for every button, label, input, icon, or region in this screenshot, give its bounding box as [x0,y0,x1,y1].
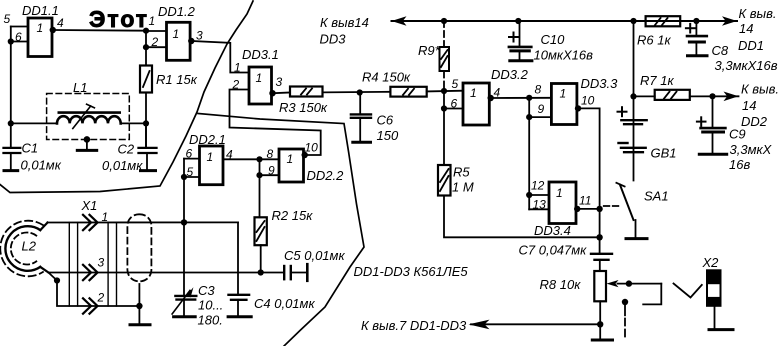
svg-text:1: 1 [234,61,241,75]
wire output to pin7 [471,323,600,325]
pin contact X1.3 [83,265,98,280]
svg-text:14: 14 [742,98,756,113]
resistor R4 [362,70,427,97]
logic gate DD3.2 [463,67,529,125]
wire DD3.3/DD3.4 input column [528,98,530,210]
svg-text:1: 1 [149,14,156,28]
wire DD3.2 pin6 [444,108,463,110]
wire DD1.2 input column to R1 [145,31,147,66]
svg-text:DD1.1: DD1.1 [22,3,59,18]
svg-text:C6: C6 [377,113,394,128]
capacitor C7 [519,243,613,272]
svg-text:R2 15к: R2 15к [272,208,314,223]
resistor R2 [255,208,314,245]
wire C4 bottom [237,300,239,316]
svg-text:3,3мкX16в: 3,3мкX16в [715,58,778,73]
wire R1 bottom to tank [145,93,147,148]
svg-text:GB1: GB1 [651,146,677,161]
wire DD3.4 pin13 [529,208,549,210]
inductor L2 (search coil) [0,221,48,277]
svg-text:R3 150к: R3 150к [279,100,328,115]
wire C1 bottom [10,153,12,170]
node C rail/GB1 [630,18,636,24]
wire DD3.1 out to R3 [274,92,290,95]
inductor L1 (with shield box) [47,80,130,140]
node inversion dot DD2.2 output [302,152,308,158]
net label K vyv14 DD3 [320,15,369,47]
node junction feedback/C7 [596,234,602,240]
wire DD2.2 input column to R2 [259,159,261,217]
svg-text:К выв.: К выв. [739,6,777,21]
node D rail/C8 [693,18,699,24]
node inversion dot DD1.2 output [188,38,194,44]
svg-text:L2: L2 [22,239,37,254]
svg-text:C8: C8 [712,43,729,58]
node inversion dot DD3.4 output [574,206,580,212]
ground C6 [353,141,371,144]
resistor R6 [637,16,680,47]
svg-text:8: 8 [535,83,542,97]
ground C10 [510,59,532,62]
wire R3 to C6 node [323,91,391,94]
capacitor C1 [4,141,62,173]
svg-text:11: 11 [579,194,591,208]
node junction DD1.1 inputs [8,38,14,44]
capacitor C5 [284,248,345,281]
svg-text:3: 3 [276,75,283,89]
svg-text:0,01мк: 0,01мк [102,158,143,173]
svg-text:C7 0,047мк: C7 0,047мк [519,243,588,258]
svg-text:1: 1 [207,150,214,164]
svg-text:C4 0,01мк: C4 0,01мк [254,296,315,311]
ground C3 [174,315,196,318]
node junction DD1.2 pin2 [143,44,149,50]
ground C9 [699,153,726,156]
ground C4 [228,315,251,318]
net label K vyv 14 DD1 [738,6,777,53]
node junction tank node at pin1 wire [181,219,187,225]
svg-text:2: 2 [97,291,105,305]
capacitor C9 [697,96,773,172]
svg-text:C10: C10 [541,32,566,47]
tear line A (torn fragment right edge) [0,1,253,193]
wire DD1.2 pin3 to DD3.1 pin1 [193,41,250,73]
svg-text:4: 4 [57,16,64,30]
wire jack contact dashes [624,319,626,337]
logic gate DD1.1 [22,3,59,57]
svg-text:16в: 16в [729,157,750,172]
wire C2 bottom [146,153,148,170]
resistor R3 [279,87,328,116]
svg-text:C3: C3 [198,283,215,298]
node junction R8/output wire [597,321,603,327]
node junction R7/C9 [709,93,715,99]
wire V+ rail [392,20,738,22]
logic gate DD1.2 [158,4,196,60]
node junction DD2.1 pin5 [181,174,187,180]
node inversion dot DD1.1 output [50,27,56,33]
wire pin5 DD1.1 [11,26,28,28]
wire DD2.1 input column down to C3 [183,159,185,296]
wire R8 bottom [599,301,601,339]
capacitor C8 [686,21,778,73]
arrow to pin7 DD1-DD3 [469,320,490,330]
pin contact X1.1 [83,215,98,230]
ground C1 [4,169,18,172]
arrow to pin14 DD1 (right) [722,16,737,26]
svg-text:5: 5 [452,77,459,91]
svg-text:X2: X2 [702,255,720,270]
node junction DD3.3 pin8 [526,95,532,101]
node junction L2 cold [54,277,60,283]
svg-text:R1 15к: R1 15к [156,72,198,87]
node junction R4/R9/R5 [441,88,447,94]
svg-text:DD2.2: DD2.2 [307,168,345,183]
connector X2 (phone jack) [643,255,720,306]
ground X2 [709,306,733,330]
wire DD3.3 out down to DD3.4 out [580,108,600,253]
svg-text:10: 10 [581,94,595,108]
svg-text:10мкX16в: 10мкX16в [534,48,594,63]
net label K vyv 14 DD2 [741,82,779,130]
svg-text:C9: C9 [729,127,746,142]
svg-text:R9*: R9* [418,43,441,58]
node junction R2/C5 [258,269,264,275]
logic gate DD2.1 [189,132,226,185]
svg-text:DD3.4: DD3.4 [534,223,571,238]
node junction outputs 10/11 [596,206,602,212]
svg-text:R7 1к: R7 1к [640,73,674,88]
node junction DD3.4 pin12 [526,192,532,198]
svg-text:3,3мкX: 3,3мкX [730,142,773,157]
svg-text:1: 1 [256,71,263,85]
svg-text:1: 1 [173,27,180,41]
svg-text:C2: C2 [118,142,135,157]
wire DD3.3 pin9 [529,116,551,118]
wire R2 bottom [260,245,262,272]
svg-text:2: 2 [232,78,240,92]
svg-text:R5: R5 [453,165,470,180]
node jack break contact [622,299,628,305]
logic gate DD3.4 [534,182,576,238]
svg-text:К выв.7 DD1-DD3: К выв.7 DD1-DD3 [361,318,467,333]
node inversion dot DD3.1 output [269,90,275,96]
svg-text:9: 9 [538,102,545,116]
svg-text:DD3: DD3 [320,32,347,47]
wire DD3.2 out to DD3.3 pin8 [492,97,551,99]
svg-text:3: 3 [98,256,105,270]
ground R8 [592,339,612,342]
node junction tank right [143,120,149,126]
wire DD2.1 pin6 [184,158,200,160]
battery GB1 [618,21,677,181]
cable shield of X1 [127,214,151,306]
resistor R9 (selected, dashed) [418,21,449,90]
wire C2 top [145,123,147,147]
svg-text:1: 1 [470,86,477,100]
wire L2 cold tie to pin2 [50,274,140,307]
svg-text:К выв14: К выв14 [320,15,369,30]
svg-text:DD1: DD1 [738,38,764,53]
wire R5 bottom to feedback [444,196,600,238]
svg-text:R8 10к: R8 10к [540,277,582,292]
wire DD2.1 out to DD2.2 pin8 [223,158,279,160]
pin contact X1.2 [83,298,98,313]
svg-text:DD1.2: DD1.2 [158,4,196,19]
ground X1 shield [130,306,150,325]
wire DD3.4 out [579,208,600,210]
logic gate DD3.1 [242,47,279,104]
wire L2 bottom / X1 pin3 to C5 [49,272,284,274]
node junction GB1/R7 [630,93,636,99]
node junction C6 [357,89,363,95]
wire pin6 DD1.1 [11,41,28,43]
logic gate DD3.3 [551,76,618,125]
node junction DD1.2 pin1 [143,28,149,34]
svg-text:1: 1 [287,152,294,166]
svg-text:150: 150 [377,128,399,143]
resistor R5 [438,165,474,196]
switch SA1 [604,183,669,238]
logic gate DD2.2 [279,149,344,183]
potentiometer R8 [540,271,662,301]
svg-text:DD3.2: DD3.2 [491,67,529,82]
ground SA1 [626,237,647,240]
capacitor C4 [229,222,316,311]
wire DD1.2 pin1 stub [146,30,167,32]
node inversion dot DD3.2 output [488,95,494,101]
svg-text:10...: 10... [198,298,223,313]
wire tank horizontal [11,122,57,124]
wire R7 to arrow [690,95,739,97]
svg-text:12: 12 [531,179,545,193]
caption Этот [89,6,149,32]
svg-text:1: 1 [37,21,44,35]
svg-text:DD3.1: DD3.1 [242,47,279,62]
wire DD2.2 pin9 [260,174,280,176]
wire C3 bottom [183,300,185,316]
svg-text:14: 14 [739,21,753,36]
svg-text:1: 1 [560,87,567,101]
node junction DD2.2 pin9 [256,172,262,178]
svg-text:R4 150к: R4 150к [362,70,411,85]
svg-text:C5 0,01мк: C5 0,01мк [284,248,345,263]
wire left column (DD1.1 inputs to L1/C1) [10,27,12,148]
node junction DD3.3 pin9 [526,114,532,120]
arrow to pin14 DD3 (left) [392,16,407,26]
wire DD2.2 out to DD3.1 pin2 [230,90,321,156]
capacitor C2 [102,142,157,174]
svg-text:SA1: SA1 [644,189,669,204]
capacitor C6 [351,93,399,144]
wire R9/R5 column [443,91,445,165]
svg-text:180.: 180. [198,313,223,328]
svg-text:1: 1 [556,186,563,200]
wire DD2.1 pin5 [184,176,200,178]
wire L2 top / X1 pin1 to C4 corner [48,221,239,223]
node junction tank left [8,120,14,126]
svg-text:К выв.: К выв. [741,82,779,97]
node inversion dot DD3.3 output [575,105,581,111]
node junction DD3.2 pin6 [441,105,447,111]
svg-text:DD1-DD3 К561ЛЕ5: DD1-DD3 К561ЛЕ5 [354,264,469,279]
connector X1 [69,198,116,306]
node junction DD2.2 pin8 [256,156,262,162]
svg-text:C1: C1 [22,141,39,156]
tear line B (main schematic torn edge) [198,114,364,346]
svg-text:0,01мк: 0,01мк [21,158,62,173]
svg-text:Этот: Этот [89,6,149,32]
wire DD3.4 pin12 [529,194,549,196]
wire DD1.1 pin4 to DD1.2 pin1 [54,29,146,32]
arrow to pin14 DD2 [724,92,739,102]
svg-text:5: 5 [4,12,11,26]
ground shield of L1 [77,136,96,150]
resistor R1 [140,66,198,93]
svg-text:DD3.3: DD3.3 [581,76,619,91]
resistor R7 [640,73,690,100]
node junction wiper [626,280,632,286]
ground C2 [141,169,156,172]
wire R4 to DD3.2 pin5 [427,90,463,93]
node A rail/R9 [441,18,447,24]
wire jack contact stub [624,302,626,315]
wire GB1 to R7 [634,95,655,97]
svg-text:R6 1к: R6 1к [637,33,671,48]
capacitor C10 [509,21,593,63]
svg-text:8: 8 [267,147,274,161]
node B rail/C10 [515,18,521,24]
wire DD1.2 pin2 stub [146,46,167,48]
node junction shield/pin2 [136,303,142,309]
ground C8 [688,54,708,57]
capacitor C3 (variable) [172,283,223,328]
svg-text:1 М: 1 М [452,180,474,195]
svg-text:X1: X1 [81,198,98,213]
